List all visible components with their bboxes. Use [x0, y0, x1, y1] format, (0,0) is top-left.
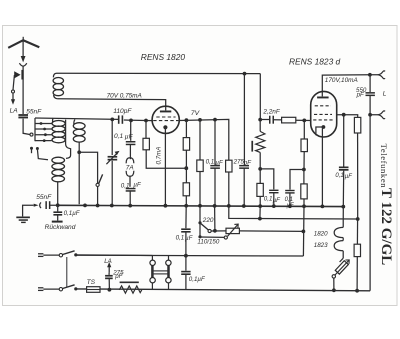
tube U1 RENS1820 envelope: [152, 106, 179, 133]
label LA: [10, 108, 19, 115]
resistor R7: [257, 183, 263, 196]
wire: [342, 207, 344, 228]
coil L1a tapped antenna coil: [52, 118, 71, 158]
tube U2 cathode: [316, 125, 325, 135]
resistor R11: [354, 117, 360, 133]
bus node: [272, 204, 276, 208]
node: [302, 230, 306, 234]
tube U1 grid1 dashes: [156, 116, 175, 118]
node: [74, 253, 77, 256]
anode coil L3: [53, 73, 63, 98]
wire: [214, 206, 216, 231]
wire: [260, 119, 281, 121]
svg-text:Telefunken: Telefunken: [379, 144, 389, 189]
label 0,1uF: [189, 276, 206, 283]
switch contact heater: [332, 275, 335, 278]
svg-text:275: 275: [233, 159, 245, 166]
wire 256 rail: [76, 254, 304, 257]
svg-text:RENS 1823 d: RENS 1823 d: [289, 57, 341, 67]
node: [368, 73, 372, 77]
switch pole top: [59, 251, 74, 257]
mains prong top: [38, 254, 59, 257]
svg-text:7V: 7V: [191, 110, 201, 117]
svg-text:RENS 1820: RENS 1820: [141, 52, 186, 62]
wire tuning cap to bus: [111, 161, 113, 204]
svg-text:0,1µF: 0,1µF: [64, 210, 81, 217]
antenna plug connector: [19, 56, 26, 66]
svg-text:55nF: 55nF: [26, 108, 42, 115]
wire: [129, 145, 131, 159]
svg-text:0,1: 0,1: [335, 173, 343, 179]
tap 1: [35, 122, 52, 125]
wire anode lead: [58, 99, 166, 111]
bus node: [302, 204, 306, 208]
tube U1 grid2 dashes: [153, 120, 178, 122]
mains prong bottom: [38, 288, 59, 291]
capacitor 0.1uF chassis: [52, 205, 63, 222]
selector contact A: [208, 229, 211, 232]
wire: [342, 251, 344, 258]
node cathode-R drop: [144, 119, 148, 123]
heater 1820: [334, 227, 343, 237]
tube U2 grid dashes 1: [315, 105, 331, 107]
svg-text:0,1: 0,1: [206, 159, 215, 166]
label 2,2nF: [262, 109, 280, 116]
bus node: [288, 204, 292, 208]
label 0,1 uF: [176, 235, 194, 243]
wire tube2 cathode to bus: [321, 128, 323, 206]
wire bottom rail: [76, 289, 370, 291]
wire: [259, 74, 261, 120]
wire: [146, 150, 186, 168]
tap 4: [35, 139, 52, 142]
wire: [199, 120, 201, 206]
LA down arrow: [11, 93, 15, 105]
label 1820: [314, 230, 328, 237]
variable capacitor tuning: [106, 151, 119, 164]
wire: [130, 120, 132, 140]
capacitor 0.1uF g2: [285, 190, 294, 194]
wire tube2 anode top: [322, 75, 370, 97]
wire to LA point: [13, 75, 14, 90]
capacitor 0.1uF AF1: [269, 190, 278, 194]
wire branch: [260, 169, 274, 190]
node: [108, 288, 112, 292]
transformer T1 right winding: [166, 256, 171, 290]
wire L2 to switch: [79, 152, 97, 204]
tap bus: [34, 118, 36, 141]
svg-text:110pF: 110pF: [113, 108, 132, 115]
wire: [333, 278, 335, 290]
wire tuning cap column: [111, 119, 113, 155]
svg-text:µF: µF: [133, 181, 142, 188]
capacitor 0.1uF below 7A: [126, 188, 136, 192]
node pivot: [198, 221, 201, 224]
parallel bar: [120, 281, 139, 283]
node: [356, 217, 360, 221]
capacitor 0.1uF mains1: [181, 228, 190, 232]
wire coil1b to bus: [57, 204, 59, 205]
switch S1 wave band: [96, 174, 103, 204]
spark gap arrester: [14, 70, 23, 80]
label L: [383, 91, 387, 98]
label 550pF: [356, 87, 367, 99]
chassis plug: [34, 202, 41, 208]
label 55nF top: [26, 108, 42, 115]
bus node: [258, 204, 262, 208]
node: [185, 118, 189, 122]
wire antenna lead down: [22, 40, 24, 56]
speaker terminal 2: [370, 111, 385, 119]
lower tap dots: [30, 147, 48, 160]
wire plate supply top: [57, 72, 261, 74]
wire: [303, 170, 305, 207]
bus node: [96, 204, 100, 208]
node: [332, 288, 336, 292]
svg-text:T 122 G/GL: T 122 G/GL: [378, 188, 394, 265]
bus node: [213, 204, 217, 208]
wire: [296, 119, 311, 121]
resistor R10: [301, 184, 307, 199]
wire: [356, 219, 359, 291]
ground symbol: [16, 205, 33, 223]
capacitor 55nF chassis: [45, 201, 50, 209]
label 220: [202, 217, 214, 224]
node: [368, 113, 372, 117]
wire cap to band switch: [23, 119, 30, 135]
wire rheostat out: [239, 230, 303, 233]
bus node: [341, 205, 345, 209]
capacitor 0.1uF mains2: [181, 271, 190, 275]
svg-text:TS: TS: [87, 279, 96, 286]
node L2 bottom: [77, 150, 81, 154]
label 170V 10mA: [325, 77, 358, 84]
wire output rail down: [369, 115, 371, 291]
terminal circle: [12, 90, 15, 93]
wire 110-150 contact: [200, 236, 224, 238]
svg-text:pF: pF: [114, 273, 123, 280]
bus node: [242, 204, 246, 208]
resistor R9: [301, 139, 307, 152]
svg-text:LA: LA: [104, 258, 112, 265]
tap 3: [35, 133, 52, 136]
wire branch left: [290, 170, 304, 190]
wire top rail: [76, 254, 153, 257]
node: [258, 167, 262, 171]
bus node: [110, 204, 114, 208]
wire: [22, 66, 24, 114]
capacitor 275pF: [239, 165, 249, 169]
capacitor 0.1uF screen: [210, 165, 220, 169]
label 0,1uF: [335, 173, 352, 180]
label 0,7mA: [156, 147, 163, 165]
label TS: [87, 279, 96, 286]
label 55nF lower: [36, 194, 52, 201]
rheostat R14 heater: [335, 258, 349, 275]
label RENS 1823 d: [289, 57, 341, 67]
LA up arrow: [107, 262, 111, 273]
label 0,1uF: [264, 196, 281, 204]
svg-text:0,1µF: 0,1µF: [189, 276, 206, 283]
capacitor 0.1uF grid: [126, 141, 136, 145]
wire: [199, 223, 201, 237]
label T122 G/GL: [378, 188, 394, 265]
bus node: [227, 204, 231, 208]
node: [213, 118, 217, 122]
label LA mains: [104, 258, 112, 265]
label 1823: [314, 242, 328, 249]
svg-text:1823: 1823: [314, 242, 328, 249]
label Telefunken: [379, 144, 389, 189]
wire: [342, 238, 344, 241]
wire: [129, 176, 131, 186]
bus node: [56, 203, 60, 207]
wire: [145, 121, 147, 139]
fuse TS: [87, 287, 100, 293]
wire tube1 cathode to bus: [164, 127, 166, 204]
transformer T1 left winding: [150, 256, 155, 290]
selector contact B: [224, 236, 227, 239]
selector lever 220: [201, 223, 209, 230]
wire selector pivot column: [199, 206, 201, 223]
node tuning junction: [110, 118, 114, 122]
wire: [369, 75, 371, 115]
node grid2: [302, 119, 306, 123]
label 0,1uF: [206, 159, 224, 167]
resistor grid R8: [282, 117, 296, 123]
wire bus left: [50, 204, 58, 206]
wire: [129, 191, 131, 204]
svg-text:µF: µF: [345, 174, 352, 180]
tube U2 RENS1823d envelope: [311, 91, 337, 137]
label 0,1/uF stacked: [285, 197, 294, 209]
label 110pF: [113, 108, 132, 115]
svg-text:0,1: 0,1: [176, 235, 185, 242]
svg-text:0,1: 0,1: [114, 133, 123, 140]
label 0,1uF (7A): [121, 181, 142, 189]
svg-text:µF: µF: [125, 134, 134, 141]
resistor zigzag R6: [251, 131, 265, 152]
tube U2 grid dashes 3: [313, 119, 333, 121]
label Rueckwand: [45, 224, 76, 231]
switch link bar: [66, 257, 68, 287]
wire: [259, 206, 261, 219]
bus node: [83, 204, 87, 208]
resistor R3: [183, 183, 189, 196]
label 275pF: [233, 159, 253, 167]
svg-text:1820: 1820: [314, 230, 328, 237]
svg-text:LA: LA: [10, 108, 19, 115]
svg-text:55nF: 55nF: [36, 194, 52, 201]
capacitor 110pF: [118, 115, 123, 123]
wire grid line right: [124, 119, 152, 122]
jack 7A pickup: [126, 158, 134, 177]
coil L2 tank: [73, 119, 85, 152]
svg-text:170V,10mA: 170V,10mA: [325, 77, 358, 84]
wire: [211, 230, 226, 232]
node: [184, 254, 188, 258]
node: [198, 118, 202, 122]
wire: [185, 232, 187, 271]
svg-text:220: 220: [202, 217, 214, 224]
capacitor 0.1uF anode: [339, 115, 349, 208]
rheostat R13: [226, 224, 239, 236]
wire 218 line: [229, 206, 358, 219]
antenna: [8, 37, 39, 48]
label RENS 1820: [141, 52, 186, 62]
node between resistors: [184, 166, 188, 170]
bus node: [128, 204, 132, 208]
svg-text:0,7mA: 0,7mA: [156, 147, 163, 165]
node: [74, 287, 77, 290]
node: [258, 217, 262, 221]
wire tube2 plate right: [337, 115, 358, 118]
resistor R4: [197, 160, 203, 172]
wire g-bias column: [302, 206, 305, 256]
label 70V 0,75mA: [107, 92, 142, 99]
transformer core: [153, 271, 169, 274]
tap 2: [35, 128, 52, 131]
bus node: [198, 204, 202, 208]
band switch contact circle: [30, 133, 33, 136]
resistor zigzag R15: [119, 286, 142, 293]
svg-text:110/150: 110/150: [197, 239, 219, 246]
svg-text:7A: 7A: [126, 165, 134, 172]
svg-text:70V 0,75mA: 70V 0,75mA: [107, 92, 142, 99]
node: [342, 113, 346, 117]
wire: [303, 152, 305, 170]
label 7V: [191, 110, 201, 117]
resistor R5: [226, 160, 232, 172]
label 0,1uF (grid): [114, 133, 134, 141]
switch pole bottom: [59, 285, 74, 291]
label 110/150: [197, 239, 219, 246]
wire: [214, 120, 216, 206]
node: [258, 118, 262, 122]
tube U1 cathode dot: [163, 125, 167, 129]
node top wire: [243, 72, 247, 76]
tube U2 anode bar: [317, 97, 329, 99]
wire: [185, 274, 187, 289]
wire: [243, 74, 245, 206]
resistor cathode R1: [143, 138, 149, 150]
wire: [228, 172, 230, 206]
capacitor 2.2nF: [269, 116, 274, 124]
capacitor 55nF antenna: [18, 114, 28, 118]
node: [355, 289, 359, 293]
bus node: [164, 204, 168, 208]
capacitor 550pF: [366, 92, 375, 96]
svg-text:0,1: 0,1: [264, 196, 273, 203]
label 0,1uF chassis: [64, 210, 81, 217]
bus main: [58, 205, 344, 206]
wire: [185, 206, 187, 229]
label 275pF: [112, 269, 124, 280]
svg-text:Rückwand: Rückwand: [45, 224, 76, 231]
tube U2 grid dashes 2: [314, 113, 332, 115]
node: [213, 229, 217, 233]
coil L1b lower section: [52, 157, 65, 204]
capacitor 275pF mains: [105, 273, 113, 290]
svg-text:2,2nF: 2,2nF: [262, 109, 280, 116]
wire: [259, 120, 261, 206]
node 0.1uF drop: [129, 119, 133, 123]
wire: [289, 193, 291, 206]
wire: [357, 133, 359, 219]
wire: [303, 120, 305, 139]
bus node: [321, 205, 325, 209]
tube U1 anode bar: [160, 111, 171, 113]
svg-text:L: L: [383, 91, 387, 98]
heater 1823: [334, 241, 343, 251]
speaker terminal 1: [370, 71, 385, 79]
bus node: [184, 204, 188, 208]
svg-text:pF: pF: [356, 92, 365, 99]
node: [198, 235, 201, 238]
wire grid line left: [35, 118, 118, 119]
wire: [185, 120, 187, 204]
resistor screen R2: [183, 138, 189, 151]
node: [302, 168, 306, 172]
resistor R12: [354, 244, 360, 256]
wire: [273, 193, 275, 206]
wire 7V rail: [179, 119, 229, 160]
